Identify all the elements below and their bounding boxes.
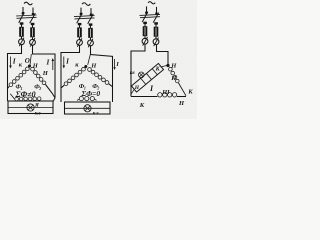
col1 wire stub to common point O [30,54,31,65]
col1 fuse F1 [19,25,24,40]
col2 left rail wire [61,45,80,102]
col3 bottom wire right segment [177,96,186,98]
col2 terminal circle 1 [77,38,83,47]
col3 right rail wire [157,45,169,65]
col3 supply lead 2 [155,7,158,15]
col2 device box KL [65,102,111,114]
col1 winding F1 (bead chain) [9,67,29,87]
col1 current arrow I up [52,58,55,70]
col2 winding F2 (bead chain) [88,68,109,85]
paper background [0,0,197,119]
col1 left rail wire [8,45,22,101]
col2 switch fixed contact 1 [78,23,82,25]
col1 label F1 flux [16,84,23,92]
col1 supply lead 2 [32,8,35,16]
col1 supply lead 1 [22,7,25,15]
col1 coil symbol (circle with X) [27,104,34,111]
col2 switch blade 1 [77,13,83,23]
col1 switch fixed contact 2 [31,23,35,25]
col2 supply lead 1 [80,8,83,16]
col2 label F2 flux [92,83,99,91]
col2 loop squiggle [77,97,97,101]
col3 AC source ~ [148,2,155,4]
col1 switch blade 2 [30,13,36,23]
col2 wire stub to node [88,55,91,65]
col2 box mid wire [65,107,111,109]
col1 wavy underline [10,94,41,101]
col2 wire winding F2 to rail [109,84,113,87]
col1 switch blade 1 [19,12,25,22]
col1 terminal circle 2 [30,38,36,47]
col3 winding P (bead chain + wire) [169,67,180,82]
col3 coil Sh (bead chain) [158,93,177,97]
col1 box mid wire [8,107,53,109]
col2 fuse F2 [88,26,93,41]
col3 switch fixed contact 2 [154,22,158,24]
col2 current arrow I down [63,57,66,69]
col3 slider symbol (circle with X) [139,72,145,78]
col2 winding F1 (bead chain) [64,67,85,85]
col1 wire winding F2 to rail [46,85,55,98]
col3 supply lead 1 [145,6,148,14]
col3 left rail wire [131,44,145,96]
col3 fuse F1 [143,24,148,39]
col2 coil symbol (circle with X) [84,105,91,112]
col1 winding F2 (bead chain) [31,67,46,84]
col2 current arrow I down (right rail) [113,59,115,70]
col3 tilted resistor (sectioned rectangle) [131,63,163,92]
col2 supply lead 2 [90,8,93,16]
scan grain overlay [0,0,197,119]
col2 wire winding F1 to rail [61,85,64,88]
col3 switch fixed contact 1 [143,22,147,24]
col3 node H (top) [166,64,169,67]
col2 switch fixed contact 2 [89,23,93,25]
col1 switch fixed contact 1 [20,22,24,24]
col2 right rail wire [91,46,113,102]
col1 device box KL [8,101,53,114]
col3 bottom wire left segment [131,96,158,98]
col1 node O (common point) [28,65,31,68]
col3 terminal circle 2 [153,38,159,47]
col3 wire resistor top to node [161,66,167,68]
col2 AC source ~ [82,3,90,6]
col3 knife switch tie bar [140,14,161,17]
col3 terminal circle 1 [142,37,148,46]
col1 terminal circle 1 [19,38,25,47]
col3 switch blade 1 [142,12,148,22]
col1 AC source ~ [24,2,32,5]
col3 wire resistor bottom to corner [131,89,134,94]
col1 label F2 flux [34,84,41,92]
col1 right rail wire [33,45,56,101]
col1 knife switch tie bar [16,15,37,18]
col1 fuse F2 [30,25,35,40]
col3 fuse F2 [154,24,159,39]
col2 fuse F1 [77,25,82,40]
col2 knife switch tie bar [74,16,95,19]
col2 label F1 flux [79,83,86,91]
col2 node (junction of windings) [84,65,87,68]
col2 switch blade 2 [88,14,94,24]
col3 switch blade 2 [153,13,159,23]
col2 terminal circle 2 [88,39,94,48]
col1 current arrow I down [9,57,12,69]
col1 wire winding F1 to rail [8,86,10,88]
